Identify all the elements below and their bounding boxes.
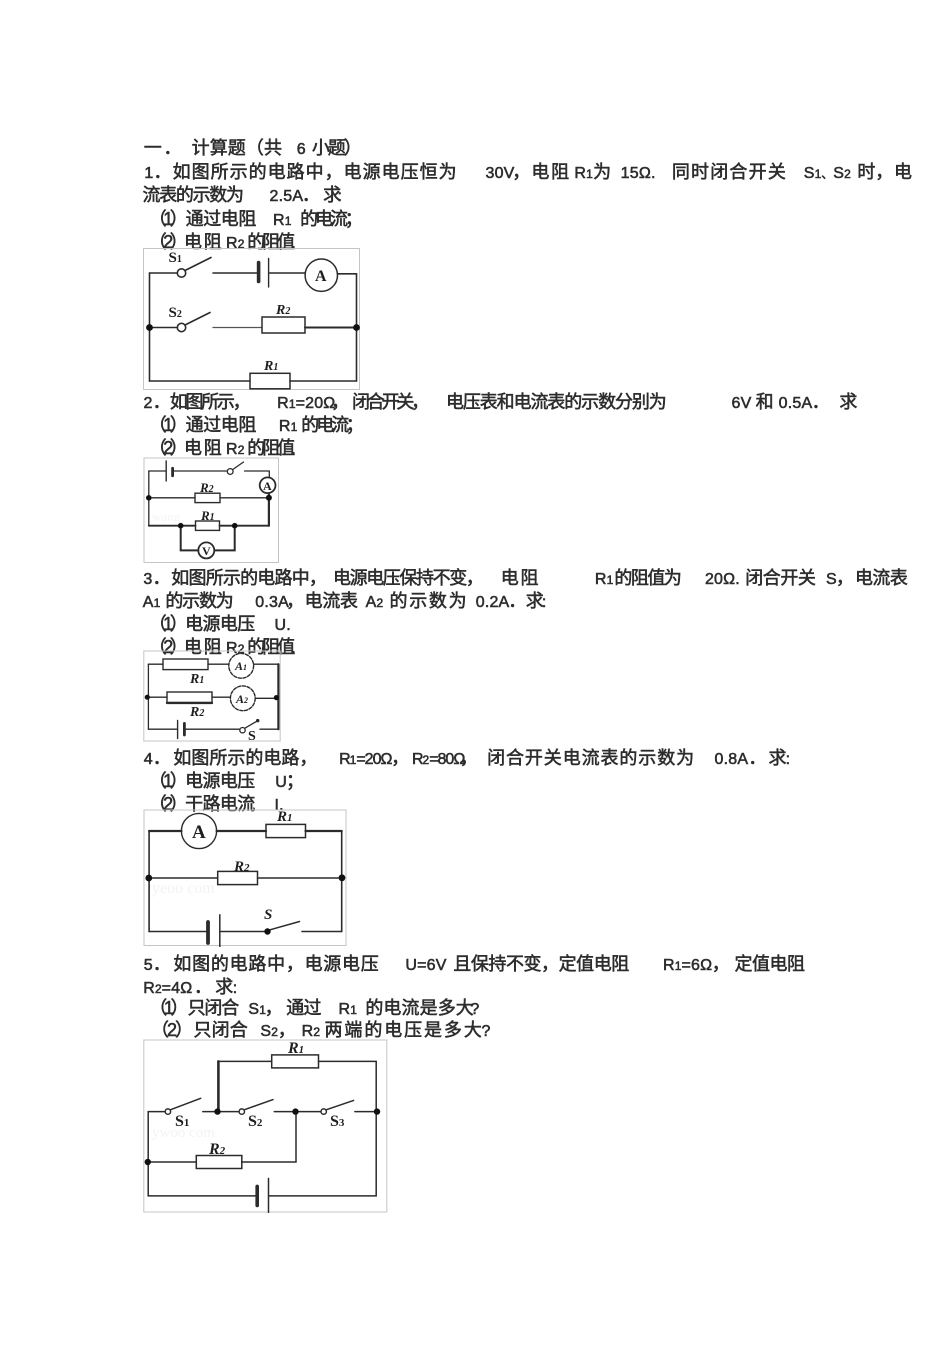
svg-text:S1: S1 (169, 250, 182, 266)
svg-text:S1: S1 (175, 1113, 189, 1130)
voltmeter V (198, 542, 214, 558)
svg-text:yeoo com: yeoo com (152, 880, 215, 897)
wire voltmeter right leg (214, 526, 234, 551)
wire battery to right vertical (270, 1195, 377, 1197)
wire S1 to node (203, 1111, 215, 1113)
wire R2 to corner and up to S2 node (242, 1112, 296, 1162)
switch pivot node (264, 928, 270, 934)
battery cell (257, 1178, 268, 1212)
battery cell (259, 259, 269, 288)
ammeter A1 (229, 653, 254, 678)
wire left vertical (147, 664, 149, 729)
resistor R1 (250, 373, 290, 389)
circuit 2 figure frame (143, 457, 280, 564)
svg-text:A2: A2 (235, 692, 248, 706)
switch S2 (239, 1100, 273, 1115)
wire top row to ammeter (149, 830, 181, 832)
node junction left S2 row (146, 324, 153, 331)
wire S3 to right node (355, 1111, 374, 1113)
wire left vertical (149, 273, 151, 381)
svg-text:A: A (315, 268, 327, 285)
wire R2 to right node (220, 497, 269, 499)
wire top row to switch S1 (150, 272, 178, 274)
wire R1 to right vertical (319, 1060, 377, 1062)
battery cell (178, 721, 185, 739)
wire A1 to right vertical (254, 663, 279, 665)
node left R2 row (146, 495, 152, 501)
battery cell (208, 915, 220, 951)
node right middle row (274, 695, 279, 700)
wire R2 row left (148, 1161, 196, 1163)
resistor R1 (163, 659, 208, 670)
ammeter A (260, 477, 276, 493)
node right R2 row (266, 495, 272, 501)
wire R1 row left from T junction (218, 1060, 271, 1062)
wire R1 to right vertical (220, 525, 269, 527)
resistor R1 (266, 824, 306, 837)
svg-text:R2: R2 (233, 859, 250, 875)
node middle row left (145, 875, 152, 882)
wire switch to right corner (302, 931, 342, 933)
wire right vertical to R1 row (268, 498, 270, 526)
circuit 3 figure frame (143, 650, 281, 742)
node R2 row left (145, 1159, 151, 1165)
wire right vertical (356, 274, 358, 381)
switch S3 (321, 1100, 354, 1114)
wire bottom row (150, 380, 357, 382)
svg-text:S2: S2 (169, 305, 182, 321)
node R1 left (178, 523, 184, 529)
wire ammeter to R1 (217, 830, 266, 832)
wire top row left (148, 663, 163, 665)
wire S2 row left (150, 327, 178, 329)
wire S2 to node (274, 1111, 292, 1113)
svg-text:A1: A1 (234, 659, 247, 673)
wire right vertical (375, 1061, 377, 1196)
wire R1 to ammeter A1 (208, 663, 229, 665)
wire ammeter to right corner (338, 273, 357, 275)
wire switch to right vertical (260, 728, 278, 730)
wire A2 to right vertical (255, 697, 278, 699)
switch S open (240, 720, 259, 733)
wire right vertical (277, 664, 279, 729)
wire R2 to ammeter A2 (212, 696, 230, 698)
node S2-R2 junction (292, 1108, 298, 1114)
wire R1 to right corner (306, 830, 342, 832)
svg-text:V: V (202, 544, 211, 558)
wire node to switch S2 (221, 1111, 238, 1113)
svg-text:S: S (248, 729, 256, 742)
svg-text:S: S (264, 907, 272, 923)
wire voltmeter left leg (181, 526, 199, 551)
resistor R1 (196, 521, 220, 530)
svg-text:A: A (192, 822, 206, 843)
wire top to battery (149, 470, 166, 472)
resistor R2 (218, 871, 258, 884)
svg-text:R1: R1 (287, 1040, 304, 1057)
switch S open (227, 462, 243, 474)
svg-text:A: A (263, 479, 272, 493)
wire bottom row left (149, 931, 207, 933)
svg-text:R1: R1 (263, 359, 278, 374)
resistor R2 (196, 1156, 242, 1169)
node junction right S2 row (353, 324, 360, 331)
wire left vertical (148, 831, 150, 932)
battery cell (166, 461, 172, 481)
svg-text:R1: R1 (189, 672, 204, 687)
switch S lever (270, 922, 300, 930)
wire T vertical to S1-S2 node (217, 1061, 220, 1111)
svg-text:R2: R2 (208, 1141, 226, 1158)
resistor R2 (167, 692, 212, 703)
wire battery to switch (174, 470, 227, 472)
resistor R2 (195, 493, 220, 502)
svg-text:R2: R2 (189, 705, 204, 720)
circuit 4 figure frame (143, 809, 347, 947)
switch S1 (177, 258, 211, 278)
wire right vertical (341, 831, 343, 932)
wire R1 row left (149, 525, 196, 527)
wire R2 row left (149, 497, 195, 499)
svg-text:S2: S2 (248, 1113, 263, 1130)
node right middle (374, 1108, 380, 1114)
wire ammeter to R2 node (268, 493, 270, 498)
wire node to switch S3 (299, 1111, 320, 1113)
wire middle row left (149, 877, 218, 879)
circuit 1 figure frame (143, 248, 361, 391)
wire left vertical (148, 471, 150, 526)
svg-text:wang: wang (152, 509, 181, 524)
wire bottom row left (148, 1195, 255, 1197)
circuit 5 figure frame (143, 1039, 388, 1213)
ammeter A (305, 259, 337, 291)
node S1-R1 T junction (214, 1108, 220, 1114)
wire left vertical (147, 1112, 149, 1196)
svg-text:S3: S3 (330, 1113, 345, 1130)
switch S2 (177, 313, 210, 332)
wire battery to switch S (186, 728, 240, 730)
switch S1 (165, 1098, 201, 1114)
wire middle row left (148, 696, 167, 698)
resistor R1 (272, 1055, 319, 1068)
wire switch S2 to resistor R2 (213, 327, 262, 329)
wire bottom row left (148, 728, 176, 730)
wire switch to right corner down to ammeter (245, 471, 270, 478)
resistor R2 (262, 317, 305, 333)
ammeter A2 (230, 686, 255, 711)
svg-text:R2: R2 (275, 303, 290, 318)
svg-text:R1: R1 (200, 508, 215, 523)
node left middle row (145, 695, 150, 700)
wire battery to ammeter (270, 272, 306, 274)
ammeter A (181, 813, 216, 848)
wire R2 to right (258, 877, 343, 879)
wire switch S1 to battery (213, 272, 257, 274)
svg-text:R1: R1 (276, 809, 293, 825)
node middle row right (339, 874, 346, 881)
wire middle row from left vertical (148, 1111, 164, 1113)
node R1 right (232, 523, 238, 529)
wire R2 to right junction (305, 327, 357, 329)
svg-text:R2: R2 (199, 480, 214, 495)
wire battery to switch (221, 931, 265, 933)
